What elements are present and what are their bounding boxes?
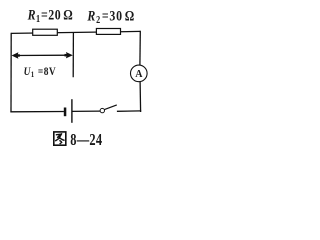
U1 arrow right head: [65, 52, 73, 58]
node line between R1 and R2: [72, 32, 74, 77]
switch pivot circle: [100, 108, 104, 112]
wire right upper: [139, 31, 141, 66]
resistor R2: [96, 29, 120, 35]
svg-text:R1=20Ω: R1=20Ω: [27, 6, 74, 24]
svg-text:R2=30Ω: R2=30Ω: [87, 7, 136, 25]
battery negative short plate: [64, 108, 67, 117]
svg-text:8—24: 8—24: [70, 131, 102, 149]
wire left: [10, 33, 12, 113]
wire bottom middle: [72, 110, 100, 112]
U1 arrow left head: [12, 52, 20, 58]
U1 arrow line: [14, 54, 71, 56]
ammeter A: [131, 65, 148, 82]
svg-text:U1=8V: U1=8V: [24, 66, 56, 79]
battery positive long plate: [71, 99, 72, 123]
wire top: [11, 31, 140, 33]
caption tu (figure) glyph: [54, 132, 66, 145]
switch lever: [104, 105, 116, 110]
resistor R1: [33, 29, 58, 35]
svg-text:A: A: [135, 69, 143, 80]
wire bottom right: [117, 110, 141, 112]
wire right lower: [139, 82, 142, 112]
wire bottom left: [10, 111, 64, 113]
